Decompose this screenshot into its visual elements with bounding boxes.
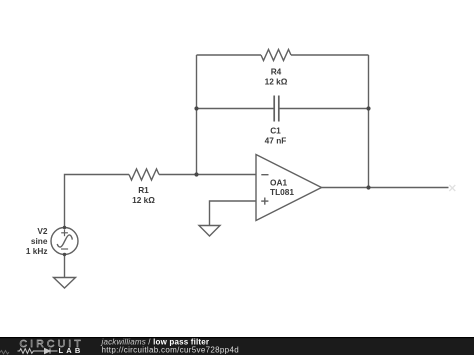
svg-text:R1: R1 (138, 185, 149, 195)
svg-text:LAB: LAB (59, 346, 84, 355)
svg-text:http://circuitlab.com/cur5ve72: http://circuitlab.com/cur5ve728pp4d (102, 345, 240, 354)
svg-text:R4: R4 (271, 67, 282, 77)
svg-text:12 kΩ: 12 kΩ (265, 77, 288, 87)
svg-text:sine: sine (31, 236, 48, 246)
svg-text:TL081: TL081 (270, 187, 294, 197)
svg-text:1 kHz: 1 kHz (26, 246, 48, 256)
svg-text:V2: V2 (37, 226, 48, 236)
svg-text:47 nF: 47 nF (265, 135, 287, 145)
svg-text:12 kΩ: 12 kΩ (132, 195, 155, 205)
svg-text:C1: C1 (270, 125, 281, 135)
